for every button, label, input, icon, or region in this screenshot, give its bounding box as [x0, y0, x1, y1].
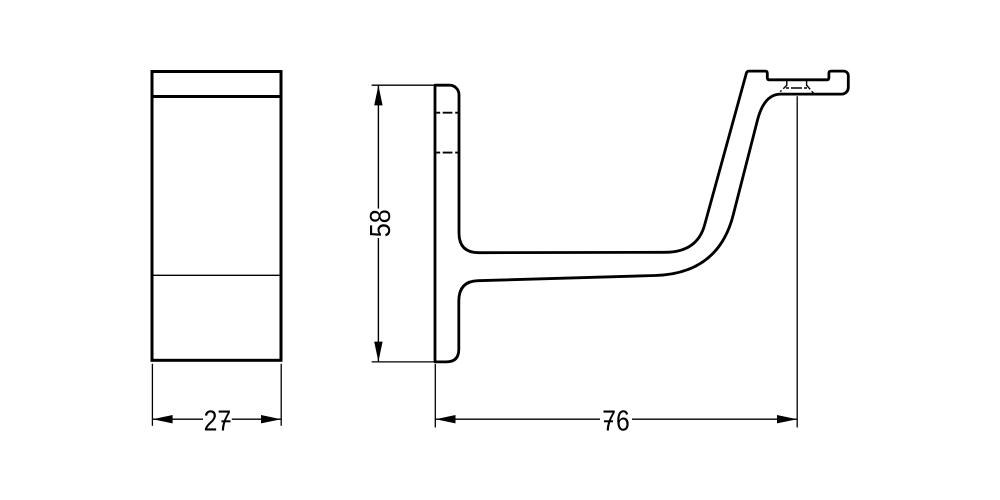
saddle countersink hidden cone left	[780, 85, 787, 92]
front view saddle underside line	[152, 95, 281, 98]
saddle countersink hidden left wall	[786, 81, 788, 86]
dimension 58 arrow bottom	[374, 342, 382, 362]
dimension 27 line left segment	[153, 418, 203, 420]
saddle countersink hidden right wall	[806, 81, 808, 86]
dimension 27 line right segment	[232, 418, 281, 420]
dimension 58 extension line top	[372, 84, 434, 86]
plate hole hidden line lower	[436, 152, 458, 154]
dimension 27 extension line left	[151, 364, 153, 426]
saddle countersink hidden horizontal	[786, 87, 807, 89]
front view outer rectangle	[152, 72, 281, 361]
plate hole hidden line upper	[436, 112, 458, 114]
dimension 76 line left segment	[436, 418, 601, 420]
front view arm edge thin line	[154, 274, 280, 276]
dimension 58 extension line bottom	[372, 361, 434, 363]
svg-text:58: 58	[365, 209, 397, 237]
dimension 76 arrow left	[436, 415, 456, 423]
dimension 58 line lower segment	[377, 238, 379, 362]
dimension 27 arrow right	[261, 415, 281, 423]
dimension 58 arrow top	[374, 85, 382, 105]
dimension 27 text seven crossbar	[222, 420, 231, 422]
dimension 27 arrow left	[153, 415, 173, 423]
dimension 76 arrow right	[777, 415, 797, 423]
dimension 58 line upper segment	[377, 85, 379, 208]
side view bracket outline	[435, 71, 848, 362]
saddle countersink hidden cone right	[807, 85, 814, 93]
saddle hole centerline	[796, 96, 798, 427]
dimension 27 extension line right	[280, 364, 282, 426]
dimension 76 text seven crossbar	[604, 420, 613, 422]
dimension 76 line right segment	[632, 418, 797, 420]
dimension 76 extension line left	[434, 364, 436, 428]
